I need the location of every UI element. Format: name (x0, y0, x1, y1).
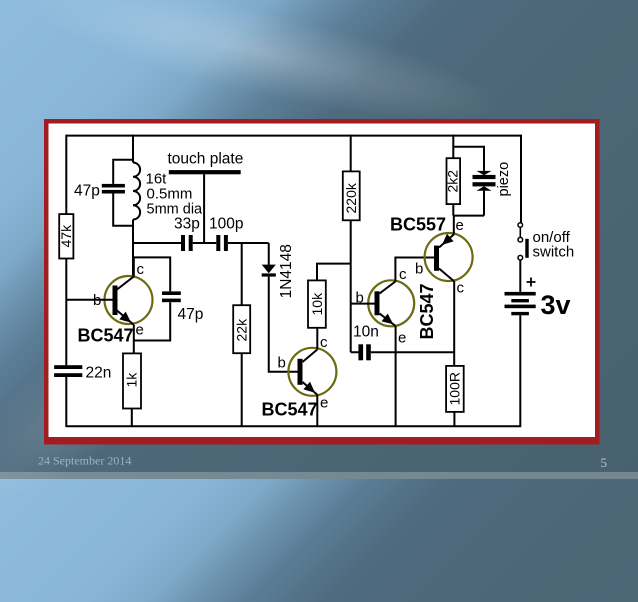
svg-text:2k2: 2k2 (445, 170, 461, 193)
wire Q1 collector up (133, 257, 135, 276)
transistor Q1 BC547 left (78, 261, 153, 346)
resistor R7 100R (446, 366, 464, 427)
svg-text:b: b (278, 355, 286, 372)
svg-text:33p: 33p (174, 216, 200, 233)
svg-text:1N4148: 1N4148 (278, 244, 295, 298)
wire Q2 emitter down (316, 395, 318, 427)
capacitor C5 47p collector-emitter (134, 257, 204, 340)
wire Q3 collector to Q4 base (395, 258, 434, 282)
wire Q4 emitter up (453, 216, 455, 235)
wire Q2 collector up (316, 328, 318, 350)
transistor Q4 BC557 (390, 215, 473, 297)
diode D1 1N4148 (262, 244, 295, 298)
wire Q1 base (66, 299, 112, 301)
svg-text:5: 5 (601, 455, 608, 470)
svg-text:e: e (456, 217, 464, 234)
wire Q3 base (351, 303, 375, 305)
svg-text:24 September 2014: 24 September 2014 (38, 454, 131, 468)
svg-text:22k: 22k (233, 318, 249, 342)
svg-text:22n: 22n (86, 365, 112, 382)
svg-text:c: c (399, 266, 407, 283)
wire coil branch from top rail (132, 135, 134, 163)
resistor R2 22k (233, 305, 250, 353)
capacitor C1 22n (54, 365, 111, 382)
resistor R6 2k2 (445, 158, 461, 204)
capacitor C6 10n (351, 324, 455, 361)
resistor R3 1k (123, 353, 141, 426)
switch S1 on/off (518, 223, 574, 261)
wire diode branch (269, 243, 298, 372)
svg-text:touch plate: touch plate (168, 151, 244, 168)
svg-text:BC547: BC547 (417, 283, 437, 339)
svg-text:c: c (320, 334, 328, 351)
svg-text:47p: 47p (74, 183, 100, 200)
wire 220k branch (350, 135, 352, 353)
capacitor C4 100p (209, 216, 243, 252)
svg-text:1k: 1k (124, 372, 140, 388)
svg-text:10n: 10n (353, 324, 379, 341)
resistor R1 47k (58, 214, 74, 258)
capacitor C2 47p across coil (74, 160, 133, 226)
wire top supply rail (66, 135, 521, 137)
wire bottom rail (66, 425, 521, 427)
svg-text:b: b (415, 261, 423, 278)
svg-text:e: e (398, 330, 406, 347)
wire 22k branch (241, 243, 243, 426)
wire Q4 collector down (453, 281, 455, 366)
wire Q3 emitter down (395, 326, 397, 427)
svg-text:piezo: piezo (496, 162, 512, 197)
wire touch plate down (203, 174, 205, 243)
wire left rail (65, 135, 67, 427)
wire switch to battery (519, 260, 521, 292)
wire coil bottom to collector node (132, 220, 134, 278)
svg-text:BC547: BC547 (78, 326, 134, 346)
transistor Q2 BC547 middle (262, 334, 337, 420)
svg-text:c: c (137, 261, 145, 278)
wire 10k top to 220k line (317, 264, 351, 281)
svg-text:0.5mm: 0.5mm (147, 186, 193, 203)
wire 2k2 piezo branch (453, 135, 484, 216)
wire Q1 emitter down (133, 325, 135, 354)
svg-text:100p: 100p (209, 216, 243, 233)
inductor L1 16t coil (133, 163, 203, 220)
svg-text:47k: 47k (58, 224, 74, 248)
resistor R4 10k (308, 280, 326, 327)
svg-text:47p: 47p (178, 306, 204, 323)
svg-text:BC557: BC557 (390, 215, 446, 235)
svg-text:switch: switch (533, 244, 575, 261)
piezo PZ1 (473, 162, 513, 197)
transistor Q3 BC547 right (356, 266, 438, 347)
wire battery to bottom rail (519, 315, 521, 427)
svg-text:c: c (457, 280, 465, 297)
capacitor C3 33p (174, 216, 200, 252)
svg-text:BC547: BC547 (262, 400, 318, 420)
svg-text:e: e (320, 395, 328, 412)
svg-text:220k: 220k (343, 182, 359, 213)
battery B1 3v (505, 278, 571, 321)
wire right rail to switch (520, 135, 522, 223)
slide panel with red border (44, 119, 600, 445)
svg-text:100R: 100R (447, 372, 463, 405)
svg-text:e: e (136, 322, 144, 339)
touch plate (168, 151, 244, 175)
svg-text:10k: 10k (309, 292, 325, 316)
wire caps row (133, 242, 269, 244)
svg-text:3v: 3v (541, 290, 571, 320)
resistor R5 220k (343, 171, 360, 220)
